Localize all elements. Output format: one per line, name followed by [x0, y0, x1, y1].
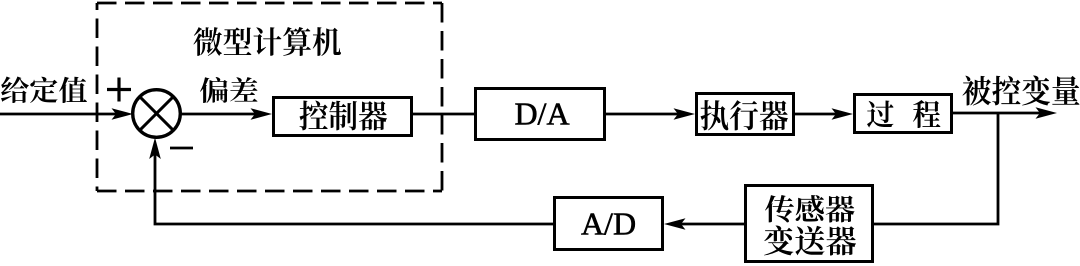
text 传感器	[765, 195, 855, 222]
block A/D converter	[555, 198, 663, 250]
label 微型计算机 (microcomputer)	[193, 27, 341, 56]
svg-text:D/A: D/A	[514, 96, 569, 132]
block 控制器 (controller)	[274, 98, 412, 136]
dashed box: bottom edge	[97, 190, 442, 193]
wire: feedback tap down from output to sensor box	[874, 113, 998, 224]
plus sign at summing junction	[107, 88, 131, 91]
node label 被控变量 (controlled variable)	[963, 76, 1080, 106]
text 过 (process char1)	[867, 100, 893, 127]
block 过程 (process)	[855, 95, 952, 133]
wire: controller to D/A	[412, 113, 474, 116]
block 传感器/变送器 (sensor/transmitter)	[746, 186, 873, 262]
node label 给定值 (setpoint)	[1, 77, 87, 103]
text 控制器	[300, 101, 388, 131]
dashed box 微型计算机 (microcomputer boundary): top edge	[97, 2, 442, 5]
block D/A converter	[476, 89, 605, 140]
text 执行器	[701, 100, 788, 131]
summing junction circle with X	[133, 90, 181, 138]
text 程 (process char2)	[913, 100, 940, 128]
text 变送器	[764, 225, 856, 255]
wire: setpoint input line	[0, 113, 116, 116]
dashed box: right edge	[441, 3, 444, 191]
dashed box: left edge	[96, 3, 99, 191]
node label 偏差 (error)	[200, 77, 257, 103]
svg-text:A/D: A/D	[581, 206, 636, 242]
wire: process output / controlled variable	[953, 112, 1040, 115]
block 执行器 (actuator)	[697, 94, 794, 135]
wire: D/A to actuator	[606, 113, 678, 116]
wire: sensor to A/D	[681, 223, 744, 226]
minus sign at summing junction	[170, 147, 193, 150]
wire: A/D back to summing junction	[155, 150, 553, 224]
wire: error signal to controller	[180, 113, 256, 116]
wire: actuator to process	[795, 113, 836, 116]
